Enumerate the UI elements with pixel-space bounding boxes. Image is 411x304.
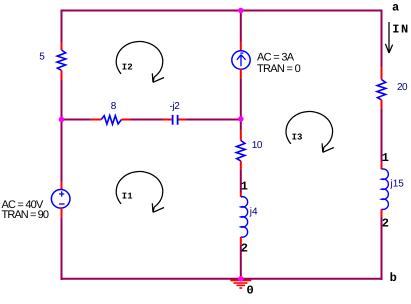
resistor R20 lead top	[381, 67, 383, 80]
mesh current arrow I3	[286, 112, 334, 153]
resistor R20 lead bottom	[381, 100, 383, 109]
current source I lead top	[240, 41, 242, 51]
capacitor C lead right	[178, 119, 186, 121]
ground bar 4	[239, 287, 242, 289]
resistor R8 zigzag	[101, 116, 121, 125]
resistor R8 lead left	[91, 119, 102, 121]
capacitor C plate right	[177, 115, 179, 125]
current source I circle	[232, 51, 250, 69]
resistor R8 lead right	[122, 119, 131, 121]
svg-text:j15: j15	[390, 179, 405, 190]
resistor R10 lead bottom	[240, 161, 242, 170]
IN arrow	[385, 22, 392, 53]
wire middle vertical between R10 and Lj4	[240, 169, 242, 192]
inductor Lj15 coil	[382, 169, 389, 209]
wire top	[61, 10, 383, 12]
inductor Lj4 lead bottom	[240, 237, 242, 245]
capacitor C plate left	[172, 115, 174, 125]
inductor Lj4 lead top	[240, 193, 242, 197]
svg-text:j4: j4	[249, 207, 258, 218]
inductor Lj4 coil	[241, 197, 248, 237]
wire right lower	[381, 216, 383, 280]
svg-text:TRAN = 0: TRAN = 0	[257, 63, 301, 75]
ground bar 2	[234, 282, 248, 284]
svg-text:20: 20	[397, 82, 408, 93]
mesh current arrow I2	[116, 42, 164, 83]
junction dot top middle	[238, 8, 244, 14]
voltage source V1 plus sign	[59, 191, 64, 196]
svg-text:2: 2	[241, 242, 248, 256]
svg-text:I2: I2	[122, 62, 133, 72]
svg-text:I3: I3	[292, 132, 303, 142]
voltage source V1 lead bottom	[61, 208, 63, 217]
svg-text:8: 8	[111, 101, 117, 112]
capacitor C lead left	[163, 119, 172, 121]
junction dot left middle	[59, 117, 65, 123]
ground bar 1	[230, 279, 251, 281]
wire left lower	[61, 217, 63, 280]
wire middle branch center	[131, 119, 163, 121]
svg-text:0: 0	[247, 284, 254, 298]
wire middle vertical to junction	[240, 78, 242, 129]
wire middle vertical lower	[240, 245, 242, 279]
wire right middle	[381, 109, 383, 163]
resistor R5 lead top	[61, 42, 63, 50]
resistor R10 zigzag	[236, 141, 245, 161]
svg-text:2: 2	[382, 217, 389, 231]
svg-text:TRAN = 90: TRAN = 90	[2, 209, 49, 221]
inductor Lj15 lead bottom	[381, 209, 383, 216]
svg-text:-j2: -j2	[170, 101, 181, 112]
svg-text:AC = 3A: AC = 3A	[257, 52, 295, 64]
junction dot ground	[238, 276, 244, 282]
wire middle branch right	[187, 119, 241, 121]
inductor Lj15 lead top	[381, 163, 383, 169]
voltage source V1 minus sign	[59, 203, 65, 205]
wire bottom	[61, 278, 383, 280]
wire left upper	[61, 10, 63, 43]
resistor R5 lead bottom	[61, 70, 63, 80]
current source I dash	[240, 52, 243, 54]
resistor R20 zigzag	[377, 80, 386, 100]
wire middle branch left	[62, 119, 91, 121]
current source I lead bottom	[240, 69, 242, 78]
svg-text:1: 1	[241, 180, 248, 194]
svg-text:1: 1	[382, 151, 389, 165]
ground bar 3	[237, 284, 246, 286]
svg-text:I1: I1	[122, 192, 133, 202]
voltage source V1 circle	[51, 190, 70, 209]
resistor R10 lead top	[240, 130, 242, 141]
junction dot center	[238, 116, 244, 122]
voltage source V1 lead top	[61, 181, 63, 190]
wire right upper	[381, 10, 383, 68]
wire middle vertical top	[240, 10, 242, 42]
mesh current arrow I1	[116, 172, 164, 213]
svg-text:b: b	[390, 271, 397, 285]
wire left middle	[61, 80, 63, 181]
svg-text:IN: IN	[392, 23, 409, 37]
svg-text:10: 10	[252, 140, 263, 151]
svg-text:5: 5	[39, 52, 45, 63]
current source I arrow	[237, 55, 246, 66]
svg-text:a: a	[392, 1, 399, 15]
resistor R5 zigzag	[57, 50, 66, 70]
